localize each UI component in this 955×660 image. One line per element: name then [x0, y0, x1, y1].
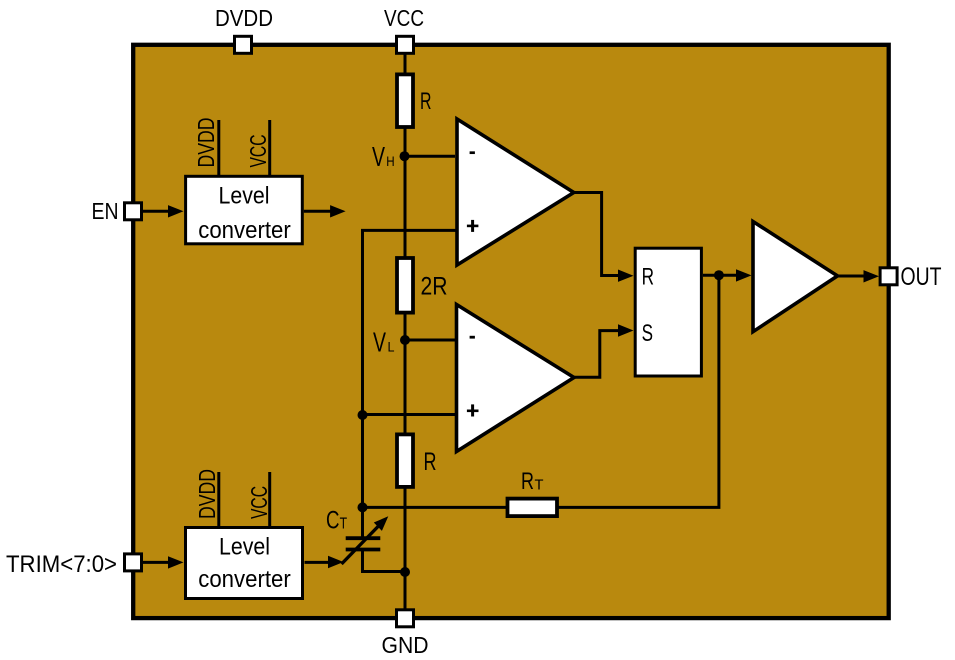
svg-text:converter: converter: [198, 566, 291, 593]
svg-text:Level: Level: [219, 533, 270, 560]
svg-text:R: R: [642, 264, 654, 291]
svg-text:S: S: [642, 320, 653, 347]
svg-text:2R: 2R: [421, 273, 448, 301]
svg-text:DVDD: DVDD: [215, 5, 273, 31]
svg-text:T: T: [535, 477, 544, 494]
svg-text:R: R: [424, 448, 437, 476]
svg-text:DVDD: DVDD: [193, 118, 219, 168]
svg-text:TRIM<7:0>: TRIM<7:0>: [6, 551, 117, 578]
svg-text:V: V: [373, 327, 386, 358]
svg-text:VCC: VCC: [245, 135, 271, 168]
svg-text:OUT: OUT: [901, 263, 942, 291]
svg-text:DVDD: DVDD: [194, 469, 220, 519]
svg-text:L: L: [388, 339, 395, 355]
svg-text:R: R: [420, 88, 432, 115]
svg-text:VCC: VCC: [384, 5, 424, 31]
svg-text:H: H: [386, 153, 394, 169]
svg-text:EN: EN: [92, 198, 119, 224]
svg-text:GND: GND: [382, 632, 429, 658]
svg-text:converter: converter: [198, 217, 291, 244]
svg-text:VCC: VCC: [246, 486, 272, 519]
svg-text:V: V: [372, 141, 385, 172]
svg-text:Level: Level: [219, 182, 270, 209]
svg-text:C: C: [326, 506, 340, 534]
svg-text:T: T: [340, 515, 348, 532]
svg-text:R: R: [521, 468, 534, 495]
